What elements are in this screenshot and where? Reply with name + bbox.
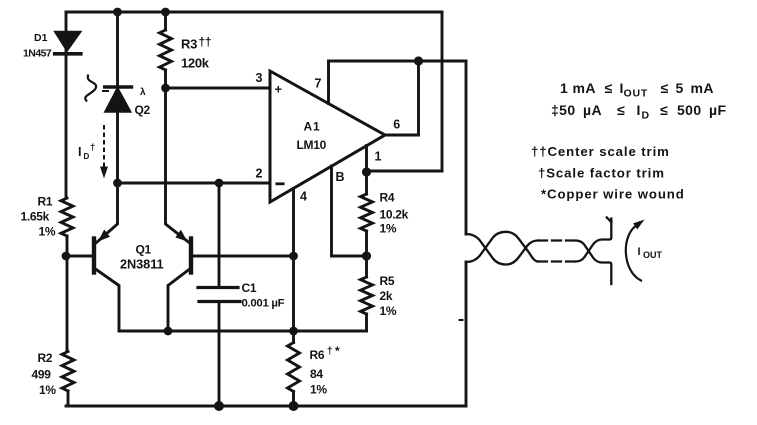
node 3 <box>161 84 170 93</box>
svg-text:≤: ≤ <box>661 80 669 96</box>
svg-text:7: 7 <box>315 77 322 91</box>
svg-text:1%: 1% <box>310 383 327 397</box>
wire bottom rail <box>66 405 466 408</box>
svg-text:I: I <box>78 145 81 159</box>
node bottom rail / C1 <box>214 401 224 411</box>
svg-text:†Scale factor trim: †Scale factor trim <box>538 166 665 181</box>
diode D1 <box>55 32 81 54</box>
wire left rail upper <box>65 12 68 198</box>
svg-text:4: 4 <box>300 190 307 204</box>
svg-text:λ: λ <box>140 87 146 98</box>
wire R6 bottom <box>292 392 295 407</box>
twisted pair wire A <box>466 218 611 285</box>
wire right vertical lower <box>465 262 468 406</box>
wire Q2 branch lower <box>116 112 119 184</box>
svg-text:A1: A1 <box>304 120 321 134</box>
wire pin7/6 top <box>329 60 467 63</box>
node collector rail / pin4 <box>289 327 298 336</box>
svg-text:µF: µF <box>709 102 726 118</box>
svg-text:3: 3 <box>256 71 263 85</box>
svg-text:1N457: 1N457 <box>23 48 52 60</box>
wire R3 to node 3 <box>164 70 167 88</box>
svg-text:1%: 1% <box>39 225 56 239</box>
node pin2 / left emitter <box>113 179 122 188</box>
node pin1 / R4 <box>362 167 371 176</box>
arrowhead Q1 left emitter <box>98 230 110 242</box>
wire pin4 lead <box>292 189 295 343</box>
node R4/R5/pin8 <box>362 251 371 260</box>
svg-text:OUT: OUT <box>624 88 649 100</box>
svg-text:120k: 120k <box>181 56 210 71</box>
twisted pair right crossing <box>576 241 611 285</box>
svg-text:I: I <box>637 102 641 118</box>
svg-text:R4: R4 <box>380 191 395 205</box>
wire Q1 left emitter <box>97 183 118 243</box>
wire pin3 <box>166 87 271 90</box>
svg-text:††Center scale trim: ††Center scale trim <box>531 144 670 159</box>
svg-text:µA: µA <box>583 102 602 118</box>
svg-text:*: * <box>335 344 340 358</box>
op-amp A1 triangle <box>270 71 385 202</box>
arrow IOUT arc <box>626 225 641 281</box>
node bottom rail / R6 <box>289 401 299 411</box>
wire top rail <box>66 11 442 14</box>
svg-text:††: †† <box>199 35 212 49</box>
svg-text:5: 5 <box>676 80 684 96</box>
wire collector rail <box>119 330 367 333</box>
wire pin2 rail <box>118 182 271 185</box>
svg-text:R6: R6 <box>310 348 325 362</box>
svg-text:R2: R2 <box>38 351 53 365</box>
twisted pair dashed middle <box>538 239 576 241</box>
wire left rail lower <box>67 391 70 406</box>
LED Q2 <box>105 87 132 112</box>
svg-text:≤: ≤ <box>617 102 625 118</box>
wire Q2 branch upper <box>116 12 119 87</box>
svg-text:mA: mA <box>573 80 596 96</box>
wire left rail middle <box>66 236 69 352</box>
wire right top vertical <box>441 12 444 171</box>
resistor R4 <box>365 172 368 194</box>
wire pin1 lead <box>365 146 368 173</box>
resistor R6 <box>288 343 300 392</box>
svg-text:R5: R5 <box>380 274 395 288</box>
wire R3 branch upper <box>164 12 167 30</box>
transistor Q1 right half <box>189 239 193 273</box>
wire right vertical upper <box>465 61 468 234</box>
stray scan speck <box>460 319 463 321</box>
arrow ID dashed <box>103 125 105 168</box>
resistor R2 <box>62 352 74 391</box>
resistor R3 <box>160 30 172 70</box>
svg-text:+: + <box>275 82 283 97</box>
svg-text:OUT: OUT <box>643 250 663 260</box>
svg-text:1: 1 <box>560 80 568 96</box>
svg-text:*Copper wire wound: *Copper wire wound <box>541 187 685 202</box>
transistor Q1 left half <box>92 239 96 273</box>
svg-text:1: 1 <box>375 150 382 164</box>
svg-text:2: 2 <box>256 167 263 181</box>
arrowhead IOUT <box>633 220 644 230</box>
svg-text:1%: 1% <box>39 383 56 397</box>
svg-text:mA: mA <box>691 80 714 96</box>
wire pin7 lead <box>327 61 330 104</box>
node top rail / R3 <box>161 8 170 17</box>
svg-text:10.2k: 10.2k <box>380 208 409 222</box>
svg-text:1%: 1% <box>380 304 397 318</box>
svg-text:C1: C1 <box>242 281 257 295</box>
svg-text:84: 84 <box>310 367 323 381</box>
resistor R1 <box>61 198 73 236</box>
node top rail / Q2 <box>113 8 122 17</box>
svg-text:500: 500 <box>677 102 702 118</box>
capacitor C1 <box>218 183 221 288</box>
node pin7/pin6 <box>414 56 423 65</box>
svg-text:D1: D1 <box>34 32 48 44</box>
svg-text:†: † <box>90 142 95 153</box>
svg-text:D: D <box>642 110 650 122</box>
svg-text:†: † <box>327 346 333 357</box>
svg-text:R3: R3 <box>181 37 197 52</box>
wire output pin6 <box>385 61 419 135</box>
node pin2 / C1 <box>215 179 224 188</box>
svg-text:2N3811: 2N3811 <box>120 257 164 272</box>
svg-text:1%: 1% <box>380 222 397 236</box>
arrowhead Q1 right emitter <box>175 230 187 242</box>
svg-text:1.65k: 1.65k <box>21 210 50 224</box>
svg-text:LM10: LM10 <box>297 138 327 152</box>
node base left <box>62 252 71 261</box>
svg-text:Q1: Q1 <box>136 243 152 257</box>
svg-text:≤: ≤ <box>605 80 613 96</box>
svg-text:B: B <box>336 170 345 184</box>
svg-text:Q2: Q2 <box>135 103 151 117</box>
svg-text:0.001 µF: 0.001 µF <box>242 298 285 310</box>
light squiggle at Q2 <box>85 75 96 102</box>
svg-text:499: 499 <box>32 368 52 382</box>
svg-text:‡50: ‡50 <box>551 102 576 118</box>
svg-text:R1: R1 <box>38 195 53 209</box>
wire pin1 to right <box>367 170 443 173</box>
node collector rail <box>164 327 173 336</box>
resistor R5 <box>365 256 368 277</box>
wire pin8 lead <box>332 166 367 256</box>
wire node3 down to Q1 right emitter <box>166 88 190 243</box>
svg-text:I: I <box>638 246 641 258</box>
svg-text:2k: 2k <box>380 289 393 303</box>
minus sign <box>276 182 285 185</box>
svg-text:≤: ≤ <box>660 102 668 118</box>
svg-text:D: D <box>84 152 90 161</box>
svg-text:6: 6 <box>393 118 400 132</box>
node base right / pin4 <box>289 252 298 261</box>
